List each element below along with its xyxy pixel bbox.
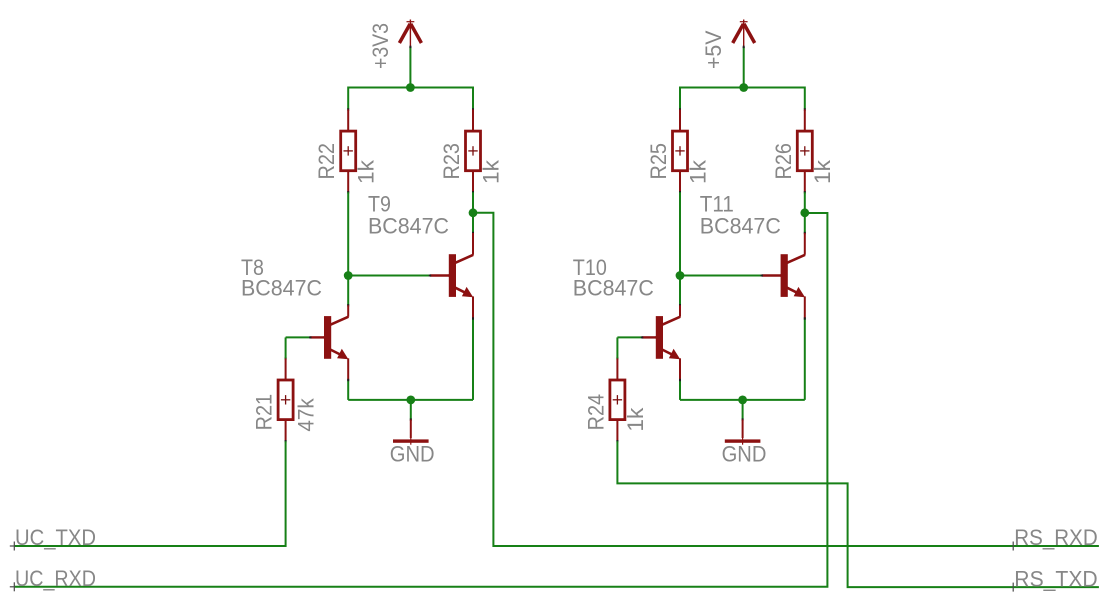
svg-text:R25: R25 <box>646 143 671 180</box>
wire lower emitter down <box>679 380 681 400</box>
pin end <box>679 304 681 306</box>
pin end <box>761 275 763 277</box>
wire node to lower transistor collector <box>679 276 681 306</box>
wire resistor to collector node <box>804 192 806 213</box>
svg-text:1k: 1k <box>685 159 710 184</box>
junction base node <box>676 271 685 280</box>
wire base rail <box>348 275 430 277</box>
resistor R21 <box>278 358 293 441</box>
pin end <box>743 46 745 48</box>
junction at GND <box>738 396 747 405</box>
svg-text:GND: GND <box>722 442 767 467</box>
junction node C9 <box>469 208 478 217</box>
wire R24 bottom to RS_TXD <box>617 441 1099 587</box>
pin end <box>742 418 744 420</box>
wire rail to resistor <box>804 87 806 110</box>
pin end <box>285 440 287 442</box>
base pin <box>762 274 782 276</box>
collector pin <box>347 305 349 316</box>
svg-text:RS_TXD: RS_TXD <box>1014 566 1097 591</box>
wire +5V to rail <box>743 47 745 88</box>
pin end <box>309 336 311 338</box>
base pin <box>430 274 450 276</box>
transistor T10 <box>655 316 680 359</box>
wire resistor to collector node <box>472 192 474 213</box>
power supply +5V symbol <box>733 20 755 48</box>
svg-text:R26: R26 <box>771 143 796 180</box>
wire +3V3 to rail <box>409 47 411 88</box>
power supply +3V3 symbol <box>399 20 421 48</box>
svg-text:R22: R22 <box>314 143 339 180</box>
svg-text:UC_TXD: UC_TXD <box>15 525 96 550</box>
pin end <box>804 317 806 319</box>
junction at supply <box>406 83 415 92</box>
pin end <box>347 379 349 381</box>
svg-text:BC847C: BC847C <box>700 213 781 238</box>
svg-text:R23: R23 <box>439 143 464 180</box>
pin end <box>429 275 431 277</box>
pin end <box>679 191 681 193</box>
resistor R23 <box>466 110 481 193</box>
transistor T8 <box>324 316 349 359</box>
pin end <box>641 336 643 338</box>
svg-text:R21: R21 <box>252 394 277 431</box>
wire to GND <box>410 400 412 420</box>
net label RS_RXD <box>1013 525 1097 551</box>
wire lower base <box>617 336 642 338</box>
ground symbol GND <box>393 420 429 445</box>
wire UC_RXD to node C11 <box>14 213 827 587</box>
wire upper emitter down <box>472 319 474 400</box>
resistor R26 <box>797 110 812 193</box>
wire resistor to base node <box>679 192 681 275</box>
pin end <box>347 304 349 306</box>
svg-text:1k: 1k <box>354 159 379 184</box>
junction node C11 <box>800 208 809 217</box>
wire lower resistor top to base <box>285 337 287 358</box>
pin end <box>472 191 474 193</box>
collector pin <box>472 233 474 255</box>
base pin <box>310 336 325 338</box>
svg-text:47k: 47k <box>293 397 318 431</box>
svg-text:+5V: +5V <box>701 30 726 69</box>
pin end <box>804 191 806 193</box>
wire rail to resistor <box>679 87 681 110</box>
svg-text:GND: GND <box>390 442 435 467</box>
wire UC_TXD to R21 <box>14 441 285 546</box>
wire lower base <box>286 336 311 338</box>
net label UC_TXD <box>10 525 96 551</box>
pin end <box>347 108 349 110</box>
pin end <box>409 46 411 48</box>
wire node to upper transistor collector <box>472 213 474 233</box>
wire rail to resistor <box>472 87 474 110</box>
pin end <box>804 232 806 234</box>
wire node to upper transistor collector <box>804 213 806 233</box>
wire rail to resistor <box>347 87 349 110</box>
svg-text:R24: R24 <box>583 394 608 431</box>
pin end <box>804 108 806 110</box>
resistor R25 <box>673 110 688 193</box>
svg-text:BC847C: BC847C <box>368 213 449 238</box>
wire top rail <box>348 87 473 89</box>
svg-text:+3V3: +3V3 <box>368 23 393 69</box>
pin end <box>410 418 412 420</box>
emitter pin <box>804 296 806 318</box>
transistor T9 <box>448 254 473 297</box>
svg-text:1k: 1k <box>810 159 835 184</box>
emitter pin <box>472 296 474 318</box>
resistor R24 <box>610 358 625 441</box>
pin end <box>616 357 618 359</box>
ground symbol GND <box>725 420 761 445</box>
wire resistor to base node <box>347 192 349 275</box>
wire lower emitter down <box>347 380 349 400</box>
wire upper emitter down <box>804 319 806 400</box>
wire top rail <box>680 87 805 89</box>
resistor R22 <box>341 110 356 193</box>
base pin <box>642 336 657 338</box>
transistor T11 <box>780 254 805 297</box>
wire emitter rail <box>348 399 473 401</box>
pin end <box>285 357 287 359</box>
junction at GND <box>406 396 415 405</box>
junction at supply <box>739 83 748 92</box>
pin end <box>679 108 681 110</box>
pin end <box>679 379 681 381</box>
pin end <box>472 108 474 110</box>
net label UC_RXD <box>10 566 96 591</box>
svg-text:UC_RXD: UC_RXD <box>15 566 96 591</box>
collector pin <box>804 233 806 255</box>
wire to GND <box>742 400 744 420</box>
wire lower resistor top to base <box>616 337 618 358</box>
net label RS_TXD <box>1013 566 1097 591</box>
emitter pin <box>347 358 349 380</box>
svg-text:1k: 1k <box>478 159 503 184</box>
collector pin <box>679 305 681 316</box>
svg-text:RS_RXD: RS_RXD <box>1014 525 1097 550</box>
pin end <box>616 440 618 442</box>
pin end <box>472 232 474 234</box>
pin end <box>472 317 474 319</box>
pin end <box>347 191 349 193</box>
wire base rail <box>680 275 762 277</box>
junction base node <box>344 271 353 280</box>
wire node C9 to RS_RXD <box>473 213 1099 546</box>
svg-text:BC847C: BC847C <box>241 275 322 300</box>
wire emitter rail <box>680 399 805 401</box>
svg-text:1k: 1k <box>623 407 648 432</box>
wire node to lower transistor collector <box>347 276 349 306</box>
emitter pin <box>679 358 681 380</box>
svg-text:BC847C: BC847C <box>573 275 654 300</box>
